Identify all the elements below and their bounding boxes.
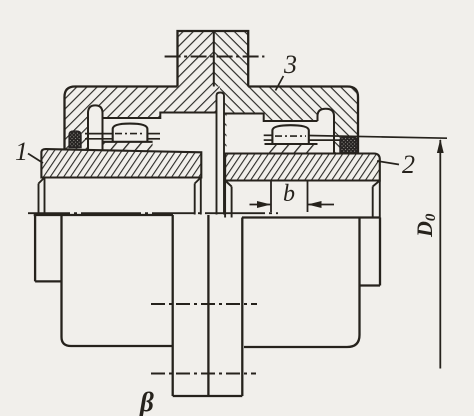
svg-text:b: b (283, 181, 295, 207)
svg-text:1: 1 (15, 137, 28, 166)
svg-text:2: 2 (402, 150, 415, 179)
svg-text:β: β (139, 387, 154, 416)
svg-text:3: 3 (283, 50, 297, 79)
